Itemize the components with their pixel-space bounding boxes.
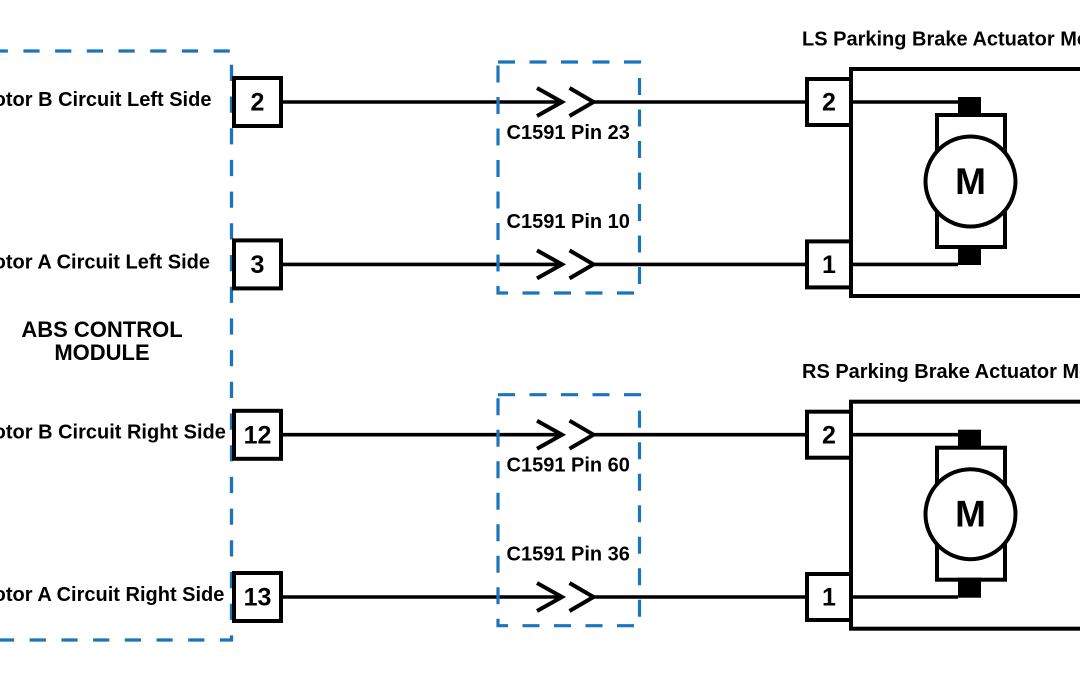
LS motor top terminal: [958, 97, 981, 115]
LS wire pin 2 inside assembly: [851, 100, 958, 104]
svg-text:Motor A Circuit Right Side: Motor A Circuit Right Side: [0, 584, 224, 606]
svg-text:M: M: [955, 494, 986, 535]
connector chevron 2 on wire pin 60: [570, 421, 594, 449]
connector C1591 upper dashed box: [498, 62, 640, 293]
connector chevron 1 on wire pin 60: [537, 421, 562, 449]
wire connector to LS pin 1: [594, 263, 807, 267]
RS pin box 1: [807, 574, 851, 620]
svg-text:12: 12: [244, 421, 272, 449]
svg-text:C1591 Pin 60: C1591 Pin 60: [507, 455, 630, 477]
svg-text:Motor A Circuit Left Side: Motor A Circuit Left Side: [0, 252, 210, 274]
connector chevron 1 on wire pin 23: [537, 88, 562, 116]
LS pin box 2: [807, 79, 851, 125]
LS wire pin 1 inside assembly: [851, 263, 958, 267]
wire ABS pin 3 to connector: [281, 263, 562, 267]
ABS control module dashed outline: [0, 51, 232, 640]
connector chevron 1 on wire pin 36: [537, 583, 562, 611]
wire connector to LS pin 2: [594, 100, 807, 104]
connector chevron 2 on wire pin 10: [570, 250, 594, 278]
svg-text:C1591 Pin 23: C1591 Pin 23: [507, 122, 630, 144]
LS pin box 1: [807, 241, 851, 287]
pin box 3 (ABS): [234, 240, 281, 288]
wire connector to RS pin 2: [594, 433, 807, 437]
LS motor bottom terminal: [958, 245, 981, 265]
svg-text:ABS CONTROL: ABS CONTROL: [21, 317, 182, 342]
svg-text:2: 2: [251, 89, 265, 117]
svg-text:M: M: [955, 161, 986, 202]
RS pin box 2: [807, 412, 851, 458]
pin box 2 (ABS): [234, 78, 281, 126]
RS motor body rectangle: [937, 448, 1005, 580]
LS motor circle: [926, 137, 1016, 227]
pin box 13 (ABS): [234, 573, 281, 621]
LS actuator assembly box: [851, 69, 1080, 296]
LS motor body rectangle: [937, 115, 1005, 247]
RS motor bottom terminal: [958, 578, 981, 598]
RS wire pin 2 inside assembly: [851, 433, 958, 437]
RS wire pin 1 inside assembly: [851, 595, 958, 599]
RS actuator assembly box: [851, 402, 1080, 629]
connector chevron 2 on wire pin 23: [570, 88, 594, 116]
svg-text:Motor B Circuit Left Side: Motor B Circuit Left Side: [0, 89, 211, 111]
svg-text:1: 1: [822, 584, 836, 612]
wire ABS pin 13 to connector: [281, 595, 562, 599]
svg-text:1: 1: [822, 251, 836, 279]
svg-text:2: 2: [822, 89, 836, 117]
wire ABS pin 2 to connector: [281, 100, 562, 104]
RS motor circle: [926, 469, 1016, 559]
svg-text:3: 3: [251, 251, 265, 279]
svg-text:C1591 Pin 10: C1591 Pin 10: [507, 211, 630, 233]
connector chevron 2 on wire pin 36: [570, 583, 594, 611]
RS motor top terminal: [958, 430, 981, 448]
wire connector to RS pin 1: [594, 595, 807, 599]
svg-text:RS Parking Brake Actuator Moto: RS Parking Brake Actuator Motor: [802, 361, 1080, 383]
svg-text:MODULE: MODULE: [54, 340, 149, 365]
svg-text:13: 13: [244, 584, 272, 612]
svg-text:2: 2: [822, 421, 836, 449]
connector chevron 1 on wire pin 10: [537, 250, 562, 278]
pin box 12 (ABS): [234, 411, 281, 459]
connector C1591 lower dashed box: [498, 395, 640, 626]
svg-text:Motor B Circuit Right Side: Motor B Circuit Right Side: [0, 422, 226, 444]
svg-text:C1591 Pin 36: C1591 Pin 36: [507, 544, 630, 566]
wire ABS pin 12 to connector: [281, 433, 562, 437]
svg-text:LS Parking Brake Actuator Moto: LS Parking Brake Actuator Motor: [802, 28, 1080, 50]
